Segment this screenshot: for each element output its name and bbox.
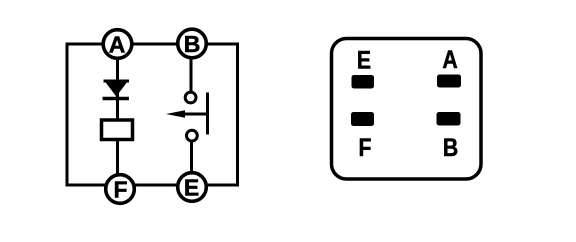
svg-text:E: E <box>184 175 199 201</box>
svg-text:A: A <box>109 32 126 58</box>
svg-text:B: B <box>184 31 201 57</box>
svg-text:E: E <box>357 46 371 74</box>
svg-text:A: A <box>442 45 458 73</box>
svg-text:B: B <box>443 134 458 162</box>
svg-text:F: F <box>113 177 127 203</box>
svg-text:F: F <box>359 134 372 162</box>
